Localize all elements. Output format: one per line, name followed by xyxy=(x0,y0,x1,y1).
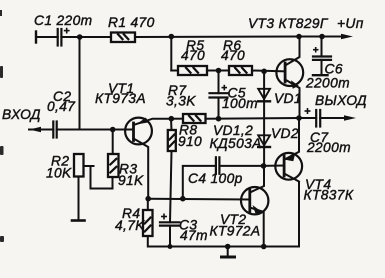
svg-text:C6: C6 xyxy=(325,62,343,77)
svg-text:КТ973А: КТ973А xyxy=(95,91,146,106)
svg-text:ВХОД: ВХОД xyxy=(2,107,41,122)
svg-text:ВЫХОД: ВЫХОД xyxy=(315,93,367,108)
svg-text:VD2: VD2 xyxy=(271,126,299,141)
svg-text:VT3 КТ829Г: VT3 КТ829Г xyxy=(248,16,329,31)
svg-text:470: 470 xyxy=(221,48,245,63)
svg-text:91K: 91K xyxy=(118,173,144,188)
svg-text:2200m: 2200m xyxy=(306,140,351,155)
svg-text:3,3K: 3,3K xyxy=(166,94,196,109)
svg-text:КД503А: КД503А xyxy=(210,136,262,151)
svg-text:C1 220m: C1 220m xyxy=(34,13,92,28)
svg-text:0,47: 0,47 xyxy=(47,99,76,114)
svg-text:VD1: VD1 xyxy=(274,91,302,106)
svg-text:C4 100p: C4 100p xyxy=(188,171,243,186)
svg-text:2200m: 2200m xyxy=(305,76,350,91)
svg-text:470: 470 xyxy=(181,48,205,63)
svg-text:КТ972А: КТ972А xyxy=(210,224,261,239)
svg-text:100m: 100m xyxy=(222,96,258,111)
svg-text:4,7K: 4,7K xyxy=(115,218,145,233)
svg-text:47m: 47m xyxy=(180,228,208,243)
svg-text:R1 470: R1 470 xyxy=(108,15,155,30)
svg-text:+Uп: +Uп xyxy=(337,16,364,31)
svg-text:10K: 10K xyxy=(46,166,72,181)
svg-text:КТ837К: КТ837К xyxy=(304,188,354,203)
svg-text:910: 910 xyxy=(178,134,202,149)
